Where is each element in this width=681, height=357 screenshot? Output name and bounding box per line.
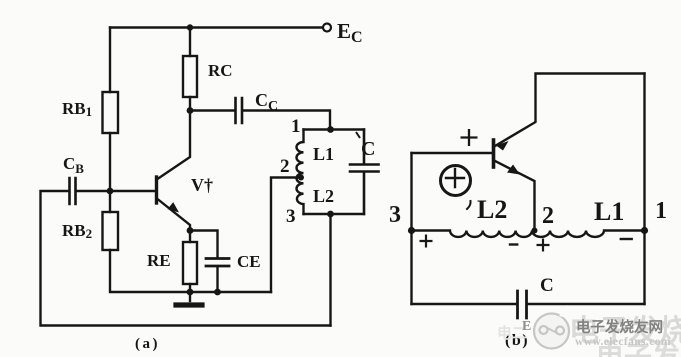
capacitor CB plates: [70, 178, 76, 204]
node collector junction: [187, 107, 194, 114]
svg-text:RB1: RB1: [62, 99, 92, 119]
wire right branch (b): [643, 74, 645, 305]
svg-text:C: C: [361, 138, 375, 160]
node at RC top: [187, 24, 193, 30]
wire tap 2 to inner rail: [271, 178, 302, 293]
svg-text:1: 1: [291, 116, 301, 137]
resistor RC: [183, 56, 197, 97]
svg-text:2: 2: [542, 203, 554, 229]
wire tank bottom to outer loop: [329, 214, 331, 326]
transistor VT emitter with arrow: [158, 199, 191, 229]
transistor emitter wire with arrow (b): [495, 161, 535, 231]
wire base (b): [412, 152, 492, 154]
svg-text:L1: L1: [313, 144, 334, 164]
svg-text:www.elecfans.com: www.elecfans.com: [575, 336, 671, 348]
wire RB2 down to inner rail: [110, 250, 271, 292]
label plus near base (b): [461, 129, 478, 146]
wire RE bottom: [189, 284, 191, 292]
wire CB to base node: [77, 190, 108, 192]
resistor RE: [183, 242, 197, 284]
wire RB2 top: [109, 191, 111, 212]
node coil end 1 (b): [641, 227, 648, 234]
wire emitter to RE: [189, 231, 191, 243]
svg-text:2: 2: [280, 156, 290, 177]
svg-text:C: C: [540, 275, 554, 296]
watermark logo circle: [534, 305, 569, 349]
svg-text:V†: V†: [191, 175, 213, 195]
svg-text:1: 1: [655, 198, 667, 224]
node CE bottom: [214, 289, 221, 296]
node tap 2 on coil: [298, 175, 304, 181]
node base junction: [107, 188, 114, 195]
svg-text:电子发烧友网: 电子发烧友网: [576, 318, 663, 336]
source circle with plus (b): [441, 166, 471, 196]
resistor RB2: [103, 212, 119, 250]
terminal EC: [323, 24, 331, 32]
wire bottom left (b): [412, 303, 517, 305]
svg-text:CB: CB: [63, 154, 84, 176]
svg-text:E: E: [522, 319, 531, 334]
svg-text:RE: RE: [147, 251, 171, 270]
wire CC to tank top: [244, 111, 331, 130]
node coil end 3 (b): [408, 227, 415, 234]
label plus below tap 2 (b): [537, 239, 550, 252]
small arrow mark near L2 (b): [467, 201, 471, 209]
capacitor C (tank): [350, 130, 379, 215]
label plus below coil left (b): [420, 235, 433, 248]
capacitor CE plates: [206, 259, 229, 267]
ground: [189, 292, 191, 301]
inductor L1 L2 coil: [297, 130, 304, 215]
wire tank bottom: [304, 213, 365, 215]
svg-text:L2: L2: [477, 195, 507, 224]
capacitor CC plates: [236, 98, 243, 123]
label minus below coil right (b): [620, 238, 633, 240]
transistor VT base bar: [155, 177, 158, 203]
wire tank top: [304, 128, 365, 130]
wire left branch top: [109, 28, 111, 93]
wire CE bottom: [216, 267, 218, 293]
wire base: [113, 190, 155, 192]
node tap 2 (b): [532, 228, 538, 234]
node RE bottom: [187, 289, 194, 296]
resistor RB1: [103, 92, 119, 133]
wire left branch (b): [410, 153, 412, 304]
label minus below coil mid-left (b): [509, 243, 519, 245]
transistor collector wire with arrow (b): [495, 74, 645, 147]
wire top supply rail (a): [110, 26, 323, 28]
inductor L2 L1 horizontal coil (b): [412, 231, 645, 237]
svg-text:(a): (a): [135, 336, 160, 352]
node emitter junction: [187, 227, 194, 234]
svg-text:L2: L2: [313, 186, 334, 206]
svg-text:RC: RC: [208, 61, 233, 80]
transistor base bar (b): [492, 140, 496, 167]
capacitor C plates (b): [518, 291, 527, 318]
wire bottom right (b): [528, 303, 645, 305]
node tank top: [327, 126, 334, 133]
svg-text:3: 3: [389, 202, 401, 228]
wire emitter to CE: [190, 231, 218, 259]
wire collector to VT: [158, 111, 191, 180]
wire RC bottom to collector node: [189, 97, 191, 111]
node tank bottom: [327, 211, 334, 218]
svg-text:CE: CE: [237, 252, 261, 271]
wire RC top: [189, 28, 191, 57]
wire RB1 to base node: [109, 133, 111, 191]
svg-text:EC: EC: [337, 19, 363, 46]
wire collector node to CC: [190, 109, 234, 111]
svg-text:RB2: RB2: [62, 221, 92, 241]
wire CB left + outer feedback loop: [41, 191, 331, 326]
svg-text:L1: L1: [594, 197, 624, 226]
svg-text:3: 3: [286, 206, 296, 227]
